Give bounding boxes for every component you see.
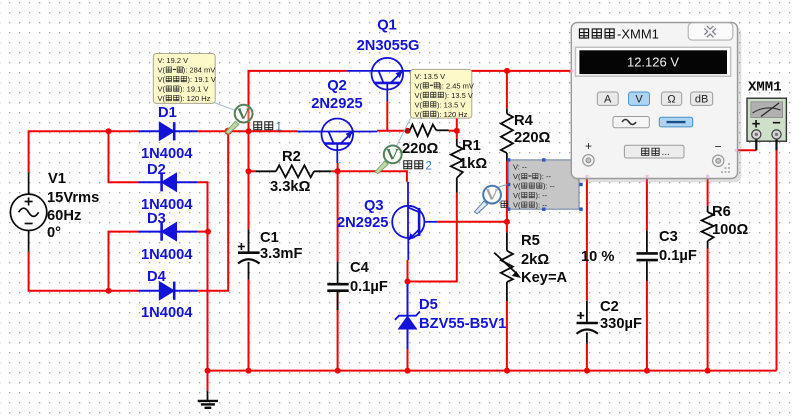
resistor R2 (3.3k)	[256, 165, 331, 177]
wire R1 top tap up to rail	[456, 71, 458, 139]
junction plus rail / upper rail riser	[246, 128, 252, 134]
probe leader line 2	[396, 118, 411, 148]
tooltip probe 1	[153, 54, 216, 104]
svg-text:C4: C4	[350, 260, 370, 276]
wave buttons	[613, 117, 649, 128]
junction 220 ohm / R1 top	[454, 128, 460, 134]
svg-text:60Hz: 60Hz	[47, 208, 81, 224]
wire D2 left drop from top rail	[109, 131, 139, 182]
capacitor C1 (3.3mF electrolytic)	[238, 229, 260, 279]
svg-text:-XMM1: -XMM1	[617, 27, 659, 42]
ground	[198, 391, 218, 408]
wire D3 cathode stub	[198, 231, 209, 233]
svg-text:D4: D4	[147, 269, 167, 285]
svg-text:V(: V(	[415, 100, 423, 109]
node Q1 base / 220 ohm junction	[405, 128, 411, 134]
svg-text:2kΩ: 2kΩ	[521, 252, 549, 268]
XMM1 instrument icon	[747, 98, 786, 150]
svg-text:V: --: V: --	[513, 163, 527, 172]
svg-text:−: −	[715, 140, 722, 154]
svg-text:R6: R6	[712, 204, 731, 220]
wire R5 bottom to bus	[506, 301, 508, 371]
junction output rail / R4 top	[504, 68, 510, 74]
svg-text:2N2925: 2N2925	[311, 96, 362, 112]
diode D1	[139, 122, 198, 140]
svg-text:V(: V(	[415, 81, 423, 90]
junction bus / C3	[644, 368, 650, 374]
wire V1 top to D1 rail	[29, 131, 139, 172]
wire ground bus	[208, 370, 777, 372]
capacitor C2 (330uF electrolytic)	[577, 301, 598, 344]
wire C3 bottom to bus	[646, 281, 648, 371]
wire D4 cathode up to plus node	[198, 131, 229, 290]
svg-text:V(: V(	[158, 66, 166, 75]
svg-text:220Ω: 220Ω	[402, 141, 439, 157]
svg-text:): 13.5 V: ): 13.5 V	[445, 91, 473, 100]
junction R4 bottom / R5 top / Q3 base	[504, 219, 510, 225]
wire D3 left to D4 row	[109, 232, 139, 291]
probe leader line 1	[214, 103, 236, 111]
svg-text:): 2.45 mV: ): 2.45 mV	[439, 81, 474, 90]
resistor 220 ohm (Q1 base)	[410, 125, 449, 137]
svg-text:2N2925: 2N2925	[337, 215, 388, 231]
svg-text:): 284 mV: ): 284 mV	[183, 66, 216, 75]
wire C4 bottom to bus	[337, 291, 339, 371]
svg-text:): 120 Hz: ): 120 Hz	[437, 110, 468, 119]
junction Q2 base / R2 / C4	[335, 168, 341, 174]
buttons A V ohm dB	[597, 92, 712, 105]
transistor Q2	[298, 119, 377, 164]
probe leader line 3	[498, 185, 508, 188]
svg-text:D2: D2	[147, 162, 166, 178]
wire Q1 emitter rail to R4 and meter	[414, 70, 571, 72]
wire Q2 base junction to Q3 collector	[338, 171, 407, 182]
svg-text:3.3mF: 3.3mF	[260, 246, 302, 262]
wire C1 bottom to bus	[248, 280, 250, 371]
svg-text:15Vrms: 15Vrms	[47, 190, 99, 206]
resize grip	[721, 163, 730, 173]
svg-text:): --: ): --	[543, 182, 555, 191]
diode D3	[139, 223, 198, 241]
junction bus / R5	[504, 368, 510, 374]
wire Q3 base to R4/R5 junction	[437, 221, 507, 223]
svg-text:C2: C2	[600, 299, 619, 315]
svg-text:1N4004: 1N4004	[141, 247, 193, 263]
wire R4 bottom to junction	[506, 161, 508, 232]
wire C2 bottom to bus	[586, 344, 588, 371]
wire R6 column	[707, 175, 709, 206]
svg-text:V(: V(	[513, 191, 521, 200]
junction bus / C2	[584, 368, 590, 374]
svg-text:dB: dB	[695, 93, 708, 105]
AC source V1	[10, 172, 46, 252]
wire Q1 base down	[386, 101, 388, 131]
wire D1 cathode rail to Q2 collector	[198, 130, 298, 132]
svg-text:1N4004: 1N4004	[141, 146, 193, 162]
resistor R4 (220)	[501, 109, 513, 161]
svg-text:12.126 V: 12.126 V	[627, 55, 679, 70]
junction Q3 emitter / D5 / R1 bottom	[405, 279, 411, 285]
wire R1 bottom to Q3 emitter junction	[408, 193, 457, 282]
svg-text:V(: V(	[513, 201, 521, 210]
svg-text:V1: V1	[48, 171, 66, 187]
svg-text:R2: R2	[282, 149, 301, 165]
potentiometer R5 (2k)	[494, 232, 521, 301]
resistor R6 (100)	[702, 206, 714, 249]
svg-text:Q2: Q2	[327, 78, 347, 94]
junction R2 left / C1	[246, 168, 252, 174]
svg-text:): --: ): --	[536, 191, 548, 200]
svg-text:V(: V(	[415, 91, 423, 100]
transistor Q1	[347, 58, 414, 101]
wire R2 left stub	[249, 170, 257, 172]
zener diode D5	[395, 284, 420, 349]
junction bus / D5	[405, 368, 411, 374]
selection handles	[507, 158, 583, 211]
junction bus / R6	[705, 368, 711, 374]
wire D2 cathode down to ground bus	[198, 182, 208, 370]
svg-text:R5: R5	[521, 233, 540, 249]
svg-text:Ω: Ω	[667, 93, 675, 105]
svg-text:D3: D3	[147, 211, 166, 227]
svg-text:1N4004: 1N4004	[141, 305, 193, 321]
transistor Q3 (rotated, base right)	[392, 182, 437, 260]
wire Q3 emitter down	[407, 260, 409, 282]
junction node plus rail (probe 1)	[225, 128, 232, 135]
svg-text:10 %: 10 %	[581, 249, 614, 265]
probe 3 info box (selected, grey)	[507, 158, 583, 211]
wire plus node to upper rail	[249, 71, 347, 131]
svg-text:100Ω: 100Ω	[712, 222, 749, 238]
probe 1 (green V)	[226, 105, 253, 134]
terminals	[583, 155, 594, 166]
svg-text:Q1: Q1	[377, 18, 397, 34]
probe 2 (green V)	[375, 146, 402, 174]
svg-text:0.1µF: 0.1µF	[350, 279, 388, 295]
wire R4 top stub	[506, 71, 508, 109]
svg-text:1kΩ: 1kΩ	[459, 156, 487, 172]
wire Q2 base drop	[337, 163, 339, 171]
svg-text:): --: ): --	[536, 201, 548, 210]
svg-text:V(: V(	[158, 94, 166, 103]
junction D3 cathode	[205, 229, 211, 235]
svg-text:+: +	[585, 139, 592, 153]
svg-text:−: −	[772, 116, 781, 132]
svg-text:...: ...	[662, 147, 670, 158]
capacitor C3 (0.1uF)	[637, 231, 658, 281]
probe 3 label (partly hidden)	[501, 201, 507, 207]
wire C3 column	[646, 175, 648, 231]
svg-text:3.3kΩ: 3.3kΩ	[270, 179, 311, 195]
svg-text:0°: 0°	[47, 225, 61, 241]
probe 1 label	[254, 122, 282, 134]
wire C2 column	[586, 175, 588, 301]
svg-text:XMM1: XMM1	[748, 80, 782, 96]
svg-text:): 120 Hz: ): 120 Hz	[180, 94, 211, 103]
svg-text:V: 13.5 V: V: 13.5 V	[415, 72, 446, 81]
multimeter window XMM1	[571, 23, 741, 183]
junction top rail / D2 branch	[106, 128, 112, 134]
wire XMM1 minus down to bus	[776, 150, 778, 371]
svg-text:220Ω: 220Ω	[514, 130, 551, 146]
svg-text:330µF: 330µF	[600, 316, 642, 332]
wire Q2 emitter to Q1 base node	[377, 130, 408, 132]
wire V1 bottom to D4 rail	[29, 252, 139, 291]
wire D5 anode to bus	[407, 349, 409, 371]
svg-text:BZV55-B5V1: BZV55-B5V1	[419, 316, 506, 332]
svg-text:Key=A: Key=A	[521, 270, 568, 286]
title	[579, 27, 658, 42]
svg-text:): --: ): --	[539, 172, 551, 181]
svg-text:V: V	[635, 93, 643, 105]
svg-text:C1: C1	[260, 230, 279, 246]
junction bus / C4	[335, 368, 341, 374]
wire R6 bottom to bus	[707, 249, 709, 371]
diode D2	[139, 173, 198, 191]
svg-text:): 13.5 V: ): 13.5 V	[437, 100, 465, 109]
svg-text:): 19.1 V: ): 19.1 V	[180, 85, 208, 94]
wire plus node down to R2 and C1	[248, 131, 250, 229]
probe 3 (blue V, selected)	[474, 186, 501, 214]
svg-text:V(: V(	[158, 85, 166, 94]
capacitor C4 (0.1uF)	[327, 262, 348, 310]
svg-text:D5: D5	[419, 297, 438, 313]
svg-text:A: A	[604, 93, 612, 105]
junction bottom rail / D3 branch	[106, 288, 112, 294]
close button	[688, 23, 733, 40]
svg-text:2: 2	[426, 161, 432, 173]
tooltip probe 2	[411, 69, 474, 118]
wire 220ohm right to R1 top	[449, 130, 457, 132]
svg-text:Q3: Q3	[364, 198, 384, 214]
resistor R1 (1k)	[451, 139, 463, 193]
svg-text:2N3055G: 2N3055G	[357, 38, 420, 54]
wire R2 right to Q2 base junction	[331, 170, 338, 172]
wire Q2 base junction down to C4	[337, 171, 339, 261]
svg-text:V(: V(	[415, 110, 423, 119]
junction ground bus / ground symbol	[205, 368, 211, 374]
svg-text:D1: D1	[158, 105, 177, 121]
settings button	[624, 145, 684, 158]
wire glow marks under window edges	[570, 70, 737, 178]
diode D4	[139, 282, 198, 300]
svg-text:0.1µF: 0.1µF	[659, 248, 697, 264]
svg-text:V(: V(	[158, 75, 166, 84]
svg-text:R4: R4	[514, 113, 534, 129]
display	[576, 47, 731, 76]
svg-text:1: 1	[276, 122, 282, 134]
wire XMM1 plus into window	[737, 149, 756, 151]
svg-text:C3: C3	[659, 229, 678, 245]
svg-text:V(: V(	[513, 172, 521, 181]
wire Q3 emitter junction to D5	[407, 282, 409, 285]
junction bus / C1	[246, 368, 252, 374]
svg-text:): 19.1 V: ): 19.1 V	[188, 75, 216, 84]
svg-text:V(: V(	[513, 182, 521, 191]
probe 2 label	[404, 161, 432, 173]
wire ground stem	[207, 371, 209, 391]
svg-text:R1: R1	[462, 138, 481, 154]
svg-text:V: 19.2 V: V: 19.2 V	[158, 56, 189, 65]
